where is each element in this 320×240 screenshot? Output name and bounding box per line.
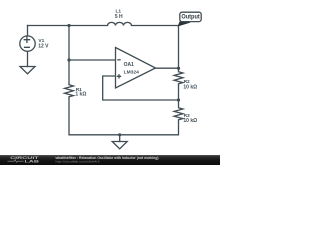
svg-text:LAB: LAB [25, 159, 40, 163]
wire R2 bottom lead [178, 86, 180, 100]
svg-text:10 kΩ: 10 kΩ [183, 118, 197, 124]
svg-text:OA1: OA1 [124, 62, 135, 68]
svg-text:5 H: 5 H [115, 14, 123, 20]
watermark banner [0, 155, 220, 165]
resistor R3 [174, 100, 183, 123]
node junction dots [67, 24, 180, 136]
label R2 value [183, 79, 197, 90]
wire op-amp output [156, 67, 179, 69]
svg-text:Output: Output [181, 14, 200, 21]
node Output label box [180, 12, 201, 21]
label V1 value [38, 38, 49, 50]
voltage source V1 [20, 36, 35, 51]
wire top rail right segment and right riser down [132, 26, 179, 69]
wire R3 bottom lead and bottom rail [69, 99, 179, 135]
svg-text:1 kΩ: 1 kΩ [75, 92, 86, 98]
wire top rail left segment [28, 25, 108, 27]
svg-text:http://circuitlab.com/c6dx4r3: http://circuitlab.com/c6dx4r3 [56, 159, 100, 163]
resistor R2 [174, 68, 183, 86]
svg-text:12 V: 12 V [38, 44, 49, 50]
label L1 value [115, 9, 123, 21]
op-amp OA1 [116, 48, 156, 89]
label R3 value [183, 113, 197, 124]
label R1 value [75, 87, 86, 97]
svg-text:LM324: LM324 [124, 69, 140, 75]
ground under V1 [20, 67, 35, 74]
wire top lead of V1 up to top rail [27, 26, 29, 37]
wire non-inverting input feedback to R2/R3 junction [103, 76, 179, 100]
ground at bottom rail [112, 142, 127, 149]
wire ground stub on bottom rail [119, 135, 121, 142]
resistor R1 [65, 84, 74, 99]
label OA1 model [124, 62, 140, 75]
wire left riser from top rail down to R1 [68, 26, 70, 84]
wire inverting input [69, 59, 116, 61]
wire V1 bottom lead [27, 51, 29, 66]
node Output flag [178, 20, 189, 26]
inductor L1 [108, 22, 132, 25]
svg-text:10 kΩ: 10 kΩ [183, 84, 197, 90]
